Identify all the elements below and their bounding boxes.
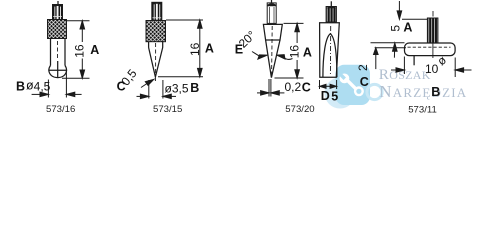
svg-text:A: A [90, 43, 99, 57]
inner arch [323, 34, 337, 77]
watermark small circle [325, 78, 356, 109]
svg-text:573/16: 573/16 [46, 104, 75, 115]
ball tip 1 [49, 66, 67, 78]
svg-text:0,2: 0,2 [285, 80, 302, 94]
centerline 3 [271, 26, 274, 74]
cylinder D5 [320, 23, 340, 77]
watermark ring [367, 84, 382, 99]
svg-text:16: 16 [287, 45, 301, 59]
angle leader arrows [252, 52, 293, 60]
cone 2 [149, 48, 163, 78]
svg-text:2: 2 [356, 64, 370, 71]
svg-text:A: A [205, 42, 214, 56]
dimension C=2 (disc thickness) [371, 43, 407, 69]
needle cone 3 [266, 40, 280, 78]
svg-text:16: 16 [188, 42, 202, 56]
watermark wrench icon [338, 72, 364, 97]
stem 2 (knurled) [152, 2, 162, 20]
stem 3 [267, 3, 276, 24]
centerline 4 [432, 11, 434, 17]
svg-text:16: 16 [73, 44, 87, 58]
stem 1 (knurled) [53, 5, 63, 20]
watermark icon square [336, 65, 371, 105]
svg-text:B: B [16, 79, 25, 93]
dimension ø3,5 [137, 80, 177, 99]
dimension 0,2 [257, 79, 284, 97]
svg-text:B: B [431, 85, 440, 99]
dimension A=16 drawing1 [62, 21, 90, 79]
svg-text:A: A [303, 45, 312, 59]
svg-text:10: 10 [425, 62, 439, 76]
dimension 5 A (stem length) [393, 1, 428, 58]
disc 4 [405, 43, 456, 56]
pin 3 [271, 0, 273, 3]
flange 3 [263, 24, 282, 40]
svg-text:D: D [321, 89, 330, 103]
pin D5 [330, 1, 332, 6]
knurl flange 1 [48, 20, 67, 39]
dimension B ø4,5 [32, 71, 82, 98]
svg-text:5: 5 [331, 89, 338, 103]
dimension D=5 [320, 80, 337, 89]
svg-text:5: 5 [388, 25, 402, 32]
hidden line disc [408, 46, 451, 48]
cylinder 2 [149, 42, 163, 48]
leader arrow 0,5 [141, 79, 154, 87]
svg-text:ø3,5: ø3,5 [165, 81, 189, 95]
body 1 [51, 39, 66, 67]
svg-text:ø4,5: ø4,5 [26, 79, 51, 94]
dimension A=16 drawing2 [158, 20, 203, 77]
svg-text:A: A [403, 21, 412, 35]
dimension A=16 drawing3 [275, 23, 304, 78]
centerline D5 [329, 26, 331, 76]
svg-text:573/15: 573/15 [153, 104, 182, 115]
cone tip stub line [154, 77, 156, 81]
svg-text:C: C [360, 75, 369, 89]
label 16 drawing2 [189, 42, 199, 57]
svg-text:C: C [302, 80, 311, 94]
knurl flange 2 [146, 21, 166, 42]
svg-text:B: B [190, 81, 199, 95]
stem D5 (knurled) [326, 7, 336, 23]
centerline 2 [155, 43, 157, 74]
mystery ext line [413, 56, 415, 66]
pin 1 [57, 1, 59, 5]
svg-text:NARZĘDZIA: NARZĘDZIA [379, 82, 467, 101]
svg-text:573/20: 573/20 [285, 104, 314, 115]
svg-text:573/11: 573/11 [408, 104, 437, 115]
dimension ø10 [391, 57, 472, 78]
centerline 1 [57, 41, 59, 59]
stem 4 (knurled) [427, 18, 438, 43]
